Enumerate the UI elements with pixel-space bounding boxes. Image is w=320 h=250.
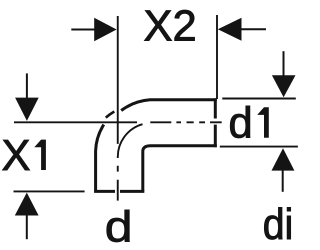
label d1 bbox=[230, 106, 250, 138]
X2 right arrow bbox=[241, 28, 266, 30]
label d bbox=[107, 210, 130, 242]
vertical centerline / X2 left extension line bbox=[117, 16, 119, 144]
d1 upper arrow (down) bbox=[283, 51, 285, 76]
X1 lower arrow (up) bbox=[15, 193, 39, 216]
pipe elbow outer wall middle piece bbox=[106, 112, 115, 118]
vertical centerline dash-dot below bend bbox=[117, 166, 119, 201]
pipe right end face (bottom segment) bbox=[214, 125, 217, 148]
pipe bottom end face (right segment) bbox=[120, 190, 144, 193]
pipe right end face (top segment) bbox=[214, 98, 217, 118]
label di bbox=[264, 208, 290, 240]
pipe bottom end face (left segment) bbox=[94, 190, 115, 193]
X1 lower reference line bbox=[14, 190, 85, 192]
label X1 bbox=[3, 140, 30, 170]
label X2 bbox=[145, 10, 195, 40]
di lower reference line bbox=[220, 146, 298, 148]
horizontal centerline dash-dot to pipe end bbox=[150, 121, 221, 123]
horizontal centerline solid part / X1 upper reference bbox=[14, 121, 137, 123]
X2 left arrow bbox=[71, 29, 95, 31]
X1 upper arrow (down) bbox=[26, 73, 28, 98]
pipe elbow inner wall bbox=[143, 146, 217, 192]
X2 right extension line bbox=[216, 15, 218, 99]
di lower arrow (up) bbox=[272, 148, 295, 170]
d1 upper reference line bbox=[222, 98, 295, 100]
pipe elbow outer wall upper piece bbox=[121, 100, 217, 111]
pipe elbow outer wall lower piece bbox=[96, 125, 104, 192]
bend centerline arc bbox=[118, 124, 143, 158]
